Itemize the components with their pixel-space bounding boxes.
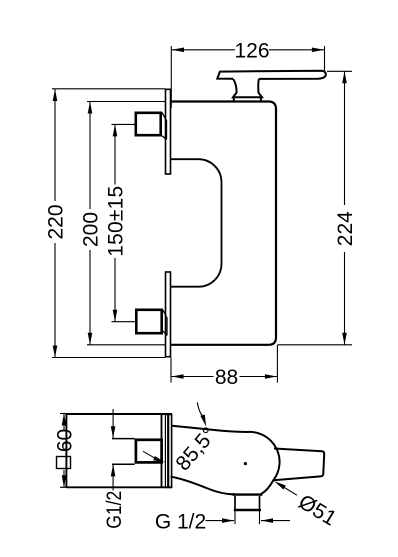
svg-text:150±15: 150±15 xyxy=(105,186,128,257)
svg-text:Ø51: Ø51 xyxy=(294,490,340,530)
svg-text:224: 224 xyxy=(334,211,357,246)
svg-text:126: 126 xyxy=(234,39,269,62)
svg-text:220: 220 xyxy=(45,204,68,239)
svg-text:G 1/2: G 1/2 xyxy=(155,511,206,534)
svg-text:60: 60 xyxy=(54,429,77,452)
svg-text:88: 88 xyxy=(215,366,238,389)
svg-text:G1/2: G1/2 xyxy=(103,491,126,529)
svg-text:200: 200 xyxy=(80,212,103,247)
